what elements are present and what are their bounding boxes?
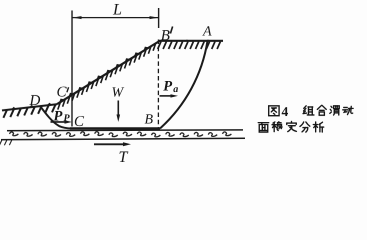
- svg-text:B: B: [144, 112, 153, 127]
- svg-text:D: D: [28, 93, 40, 109]
- svg-text:4: 4: [281, 104, 288, 119]
- svg-text:A: A: [202, 25, 212, 40]
- svg-text:P: P: [163, 78, 172, 94]
- svg-text:P: P: [53, 108, 62, 124]
- svg-text:L: L: [112, 1, 122, 18]
- svg-text:C: C: [74, 114, 85, 130]
- svg-text:B: B: [161, 28, 170, 44]
- svg-text:W: W: [111, 85, 124, 100]
- svg-text:a: a: [173, 84, 178, 95]
- svg-text:P: P: [63, 113, 70, 124]
- svg-text:T: T: [118, 149, 128, 166]
- svg-text:C: C: [56, 84, 67, 100]
